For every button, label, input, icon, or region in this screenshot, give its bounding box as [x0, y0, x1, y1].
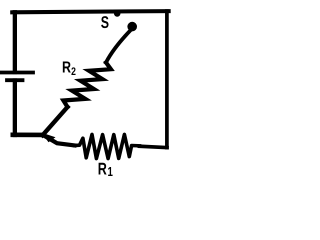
svg-text:R: R	[62, 59, 71, 76]
switch S blade-end dot	[127, 22, 137, 32]
wire bottom-right	[140, 146, 168, 147]
svg-text:1: 1	[107, 164, 112, 179]
label R1	[98, 160, 113, 179]
junction fill	[42, 133, 56, 143]
battery B1 long plate (positive)	[0, 71, 33, 75]
svg-text:R: R	[98, 160, 107, 179]
resistor R2	[63, 63, 111, 108]
wire top	[12, 11, 169, 12]
wire R2 lower lead	[43, 107, 68, 135]
label S	[101, 13, 109, 32]
label R2	[62, 59, 76, 78]
wire left lower	[13, 81, 17, 136]
battery B1 short plate (negative)	[7, 78, 23, 82]
switch S fixed contact dot	[114, 10, 121, 17]
svg-text:2: 2	[71, 66, 76, 78]
wire left upper	[13, 12, 17, 72]
svg-text:S: S	[101, 13, 109, 32]
switch S blade	[106, 31, 130, 63]
node junction J	[44, 136, 75, 146]
wire bottom-left	[13, 133, 43, 138]
wire right	[165, 11, 169, 147]
resistor R1	[75, 134, 140, 158]
